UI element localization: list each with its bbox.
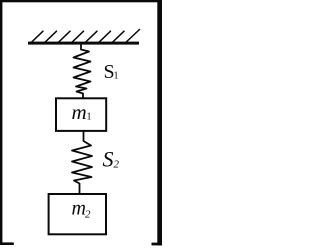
frame left border (0, 0, 2, 245)
label m2 (72, 198, 92, 221)
ceiling hatch marks (31, 30, 140, 44)
svg-text:2: 2 (114, 159, 120, 171)
mass m2 box (49, 194, 106, 234)
svg-text:1: 1 (87, 112, 92, 123)
frame right border (157, 0, 162, 245)
label m1 (72, 100, 92, 124)
svg-text:S: S (103, 147, 114, 172)
label S2 (103, 147, 120, 172)
frame top border (0, 0, 162, 2)
spring S2 (72, 132, 92, 193)
svg-text:2: 2 (85, 209, 91, 221)
frame bottom-right corner stub (152, 243, 163, 246)
svg-text:m: m (72, 198, 86, 220)
spring S1 (74, 44, 91, 98)
frame bottom-left corner stub (0, 242, 14, 245)
fixed ceiling bar (28, 42, 139, 45)
label S1 (104, 61, 119, 83)
svg-text:m: m (72, 100, 87, 124)
svg-text:1: 1 (114, 71, 119, 82)
mass m1 box (56, 98, 106, 131)
